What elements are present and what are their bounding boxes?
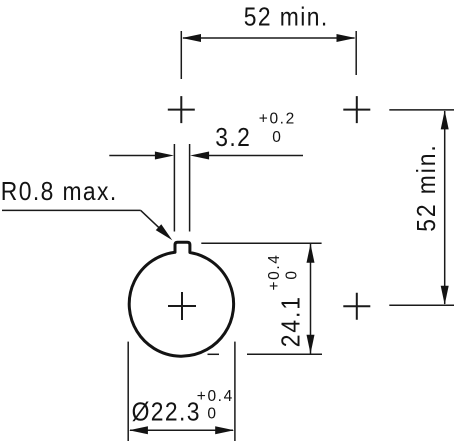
leader R0.8 max.: arrowhead at notch corner (156, 224, 173, 240)
dimension 52 min. vertical: top extension line (389, 109, 454, 111)
dimension 24.1: top arrowhead pointing up (307, 244, 315, 263)
svg-text:0: 0 (207, 405, 217, 422)
dimension 24.1: dimension line (310, 244, 312, 354)
center mark top-left hole position (168, 96, 195, 123)
svg-text:0: 0 (272, 129, 282, 146)
dimension 3.2 slot width: right arrowhead pointing left (190, 152, 209, 160)
leader R0.8 max.: label (1, 178, 118, 207)
dimension 52 min. vertical: dimension line (444, 111, 446, 304)
leader R0.8 max.: horizontal leader line (2, 209, 141, 211)
dimension D22.3: dimension line (130, 429, 233, 431)
dimension 52 min. horizontal: right arrowhead (337, 34, 356, 42)
dimension D22.3: right arrowhead (215, 426, 234, 434)
dimension 3.2: value label (215, 124, 251, 153)
dimension 24.1: top extension line (201, 242, 321, 244)
dimension 52 min. vertical: bottom arrowhead pointing down (441, 286, 449, 305)
dimension 52 min. horizontal: value label (244, 3, 329, 32)
svg-text:24.1: 24.1 (277, 295, 306, 347)
dimension 24.1: value label rotated (277, 295, 306, 347)
dimension 3.2 slot width: extension line right (189, 144, 191, 232)
dimension 52 min. vertical: value label rotated (413, 143, 442, 232)
dimension 24.1: lower tolerance 0 rotated (284, 269, 301, 279)
dimension D22.3: right extension line (234, 342, 236, 441)
svg-text:+0.4: +0.4 (266, 253, 283, 290)
center mark main hole center (168, 292, 196, 320)
svg-text:+0.2: +0.2 (259, 111, 296, 128)
dimension 3.2 slot width: left arrowhead pointing right (155, 152, 174, 160)
center mark top-right hole position (343, 96, 370, 123)
dimension 3.2 slot width: left dimension line (109, 155, 156, 157)
svg-text:R0.8 max.: R0.8 max. (1, 178, 118, 207)
center mark bottom-right hole position (343, 293, 370, 320)
dimension 52 min. horizontal: extension line left (180, 31, 182, 79)
hole outline: circle with keyway notch (129, 242, 233, 356)
dimension D22.3: left extension line (127, 342, 129, 441)
dimension 52 min. horizontal: left arrowhead (182, 34, 201, 42)
leader R0.8 max.: diagonal leader line (141, 210, 166, 234)
dimension D22.3: value label (132, 398, 201, 427)
dimension D22.3: left arrowhead (129, 426, 148, 434)
svg-text:52 min.: 52 min. (413, 143, 442, 232)
dimension 52 min. vertical: top arrowhead pointing up (441, 110, 449, 129)
svg-text:Ø22.3: Ø22.3 (132, 398, 201, 427)
dimension 52 min. horizontal: extension line right (355, 31, 357, 75)
dimension 24.1: bottom arrowhead pointing down (307, 335, 315, 354)
svg-text:+0.4: +0.4 (197, 388, 234, 405)
dimension 24.1: bottom extension line segment 2 (247, 353, 322, 355)
dimension 24.1: bottom extension line segment 1 (208, 353, 220, 355)
dimension 3.2 slot width: right dimension line (208, 155, 303, 157)
svg-text:3.2: 3.2 (215, 124, 251, 153)
dimension 52 min. horizontal: dimension line (183, 37, 355, 39)
dimension 3.2 slot width: extension line left (173, 144, 175, 232)
svg-text:52 min.: 52 min. (244, 3, 329, 32)
svg-text:0: 0 (284, 269, 301, 279)
dimension 52 min. vertical: bottom extension line (389, 304, 454, 306)
dimension 24.1: upper tolerance +0.4 rotated (266, 253, 283, 290)
